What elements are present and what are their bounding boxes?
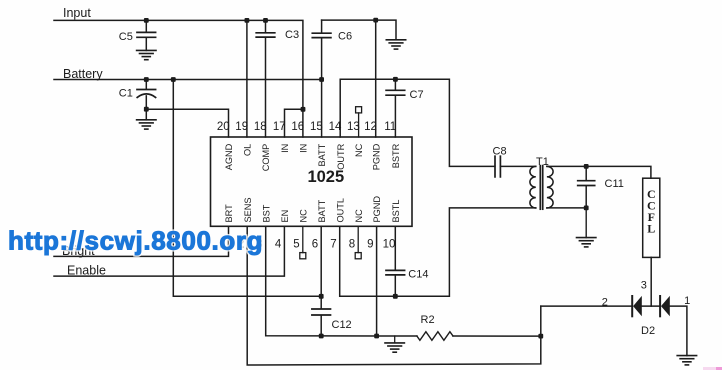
diode D2b (659, 296, 661, 316)
svg-text:IN: IN (280, 144, 290, 153)
wire C6 top to ground (322, 20, 396, 40)
svg-text:Battery: Battery (63, 67, 103, 81)
svg-text:19: 19 (235, 121, 248, 133)
diode D2a (631, 296, 633, 316)
resistor R2 (417, 332, 453, 341)
svg-text:18: 18 (254, 121, 267, 133)
node IN junction (301, 107, 306, 112)
node R2-SENS-D2 (538, 334, 543, 339)
capacitor C5 (145, 20, 147, 31)
svg-text:7: 7 (330, 239, 336, 251)
wire C8 to T1 (500, 165, 535, 167)
svg-text:C5: C5 (119, 31, 133, 43)
node C12 bottom (319, 334, 324, 339)
wire OUTR pin14 to C8 (340, 79, 495, 166)
svg-text:BSTR: BSTR (391, 143, 401, 168)
svg-text:BSTL: BSTL (391, 200, 401, 223)
wire SENS pin2 bottom (247, 226, 541, 365)
wire Input bus (54, 20, 303, 137)
svg-text:14: 14 (329, 121, 342, 133)
svg-text:8: 8 (349, 239, 355, 251)
svg-text:6: 6 (312, 239, 318, 251)
capacitor C12 (320, 296, 322, 308)
wire AGND to pin20 (146, 109, 228, 137)
node sec-C11 top (584, 164, 589, 169)
node Input-C3 (263, 18, 268, 23)
svg-text:1: 1 (684, 295, 690, 307)
ground below C1 (137, 119, 156, 121)
node OUTR-C7 (393, 77, 398, 82)
svg-text:AGND: AGND (224, 143, 234, 170)
svg-text:C7: C7 (410, 89, 424, 101)
wire Battery drop (173, 80, 321, 297)
svg-text:NC: NC (354, 143, 364, 157)
svg-text:16: 16 (291, 121, 304, 133)
node OUTL-C14 (393, 294, 398, 299)
svg-text:PGND: PGND (372, 196, 382, 223)
svg-text:BST: BST (261, 204, 271, 222)
wire IN pin17 stub (285, 109, 304, 137)
capacitor C8 (494, 156, 496, 177)
node Battery-C1 (144, 77, 149, 82)
svg-text:C8: C8 (493, 146, 507, 158)
lamp CCFL body (643, 178, 660, 257)
svg-text:R2: R2 (421, 314, 435, 326)
svg-text:NC: NC (298, 209, 308, 223)
svg-text:C11: C11 (605, 178, 624, 190)
svg-text:4: 4 (275, 239, 282, 251)
ground bottom right (677, 355, 696, 357)
svg-text:C1: C1 (119, 87, 133, 99)
wire pin15 BATT (321, 80, 323, 138)
wire Bright to BRT pin1 (54, 226, 229, 256)
svg-text:Enable: Enable (67, 263, 106, 277)
wire D2 left lead (541, 305, 632, 307)
wire BATT pin6 (320, 226, 322, 296)
ground on BST line (394, 336, 396, 343)
svg-text:3: 3 (641, 280, 647, 292)
svg-text:SENS: SENS (243, 197, 253, 222)
svg-text:http://scwj.8800.org: http://scwj.8800.org (8, 226, 263, 256)
wire OUTL pin7 to T1 (340, 208, 536, 296)
svg-text:D2: D2 (641, 325, 655, 337)
svg-text:C3: C3 (285, 29, 299, 41)
wire R2 to D2 node (453, 335, 541, 337)
svg-text:5: 5 (293, 239, 299, 251)
wire Enable to EN pin4 (54, 226, 284, 276)
wire Battery bus (54, 79, 322, 81)
no-connect pin13 (356, 107, 362, 113)
capacitor C7 (394, 79, 396, 89)
svg-text:13: 13 (347, 121, 360, 133)
svg-text:Input: Input (63, 6, 91, 20)
capacitor C11 (585, 166, 587, 180)
ground below secondary (585, 208, 587, 238)
svg-text:C6: C6 (338, 30, 352, 42)
svg-text:11: 11 (384, 121, 396, 133)
wire pin12 PGND (375, 20, 377, 137)
svg-text:9: 9 (367, 239, 373, 251)
node C1-AGND (144, 107, 149, 112)
wire CCFL to D2 (650, 257, 652, 306)
capacitor C3 (265, 20, 267, 32)
svg-text:12: 12 (364, 121, 377, 133)
node Battery-C6-pin15 (319, 77, 324, 82)
node Input-C5 (144, 18, 149, 23)
pink corner mark (703, 367, 722, 370)
node pin12 top (373, 18, 378, 23)
node Battery-drop (171, 77, 176, 82)
svg-text:L: L (647, 222, 655, 236)
svg-text:IN: IN (299, 144, 309, 153)
svg-text:2: 2 (602, 296, 608, 308)
ground top right (386, 39, 405, 41)
no-connect pin5 (302, 226, 304, 252)
svg-text:OL: OL (243, 144, 253, 156)
svg-text:EN: EN (280, 210, 290, 223)
svg-text:COMP: COMP (261, 144, 271, 172)
node Input-pin19 (245, 18, 250, 23)
op-amp U1 1025 body (211, 137, 413, 226)
node battfeed-C12 (319, 294, 324, 299)
capacitor C14 (394, 226, 396, 269)
wire secondary top (547, 166, 651, 178)
svg-text:OUTL: OUTL (335, 198, 345, 223)
node sec-C11 bottom (584, 206, 589, 211)
capacitor C6 (321, 20, 323, 32)
transformer T1 (530, 166, 536, 208)
wire pin19 OL to Input (246, 20, 248, 137)
svg-text:BATT: BATT (317, 199, 327, 222)
no-connect pin8 (357, 226, 359, 252)
wire PGND pin9 (376, 226, 378, 336)
ground below C5 (137, 49, 156, 51)
svg-text:15: 15 (310, 121, 323, 133)
svg-text:NC: NC (354, 209, 364, 223)
capacitor C1 (145, 80, 147, 89)
svg-text:C12: C12 (332, 319, 352, 331)
svg-text:10: 10 (383, 239, 396, 251)
svg-text:17: 17 (273, 121, 286, 133)
wire D2 right lead (670, 306, 687, 356)
svg-text:20: 20 (217, 121, 230, 133)
node PGND9 bottom (374, 334, 379, 339)
wire secondary bottom (547, 207, 586, 209)
svg-text:BATT: BATT (317, 143, 327, 166)
svg-text:OUTR: OUTR (336, 143, 346, 169)
svg-text:PGND: PGND (371, 143, 381, 170)
svg-text:C14: C14 (408, 268, 428, 280)
svg-text:BRT: BRT (224, 204, 234, 223)
wire D2 middle (642, 305, 660, 307)
wire BST pin3 line (266, 226, 417, 336)
